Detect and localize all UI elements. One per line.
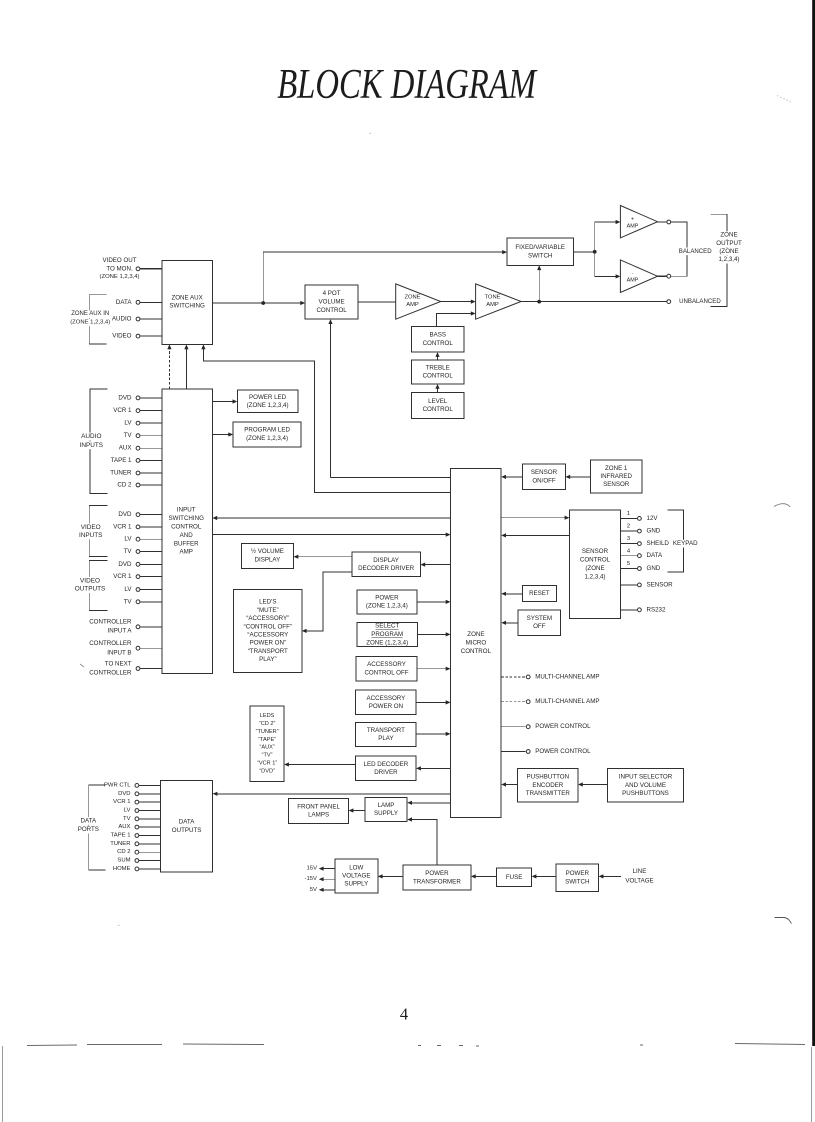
wire: zone micro -> data outputs (215, 793, 451, 795)
junction: node aux-out (261, 301, 265, 305)
svg-text:TRANSMITTER: TRANSMITTER (526, 790, 571, 797)
label: ZONE OUTPUT l1 (720, 231, 738, 239)
terminal: data port DVD (135, 792, 139, 796)
svg-text:“TV”: “TV” (262, 753, 273, 759)
svg-text:VOLUME: VOLUME (319, 299, 345, 306)
svg-text:INPUTS: INPUTS (79, 532, 102, 539)
wire: zone micro -> led decoder driver (418, 767, 450, 769)
label: ZONE AUX IN line 1 (71, 311, 109, 318)
wire: system off -> zone micro (504, 622, 518, 624)
terminal: data port SUM (135, 859, 139, 863)
block: SELECT PROGRAM ZONE (357, 622, 418, 646)
arrowhead: into leds list box (284, 762, 289, 766)
wire: data port CD 2 stub (139, 851, 160, 853)
svg-text:4: 4 (400, 1005, 408, 1024)
svg-text:(ZONE 1,2,3,4): (ZONE 1,2,3,4) (100, 274, 140, 280)
svg-text:DISPLAY: DISPLAY (255, 556, 281, 563)
svg-text:“TUNER”: “TUNER” (256, 729, 279, 735)
svg-text:“TAPE”: “TAPE” (258, 737, 276, 743)
wire: zone micro -> power control 1 (501, 726, 526, 728)
svg-text:RESET: RESET (529, 590, 550, 597)
terminal: unbalanced output (667, 300, 671, 304)
wire: keypad pin 1 12V (621, 517, 638, 519)
scan artifact: bottom dashed edge line (27, 1044, 805, 1047)
wire: video in TV stub (140, 551, 162, 553)
svg-text:BUFFER: BUFFER (174, 540, 199, 547)
svg-text:VIDEO: VIDEO (81, 524, 101, 531)
svg-text:INPUT A: INPUT A (108, 628, 133, 635)
svg-text:AND VOLUME: AND VOLUME (625, 782, 666, 789)
arrowhead: into zone aux switching c (201, 344, 205, 349)
svg-text:DATA: DATA (81, 817, 97, 824)
svg-text:POWER LED: POWER LED (249, 394, 287, 401)
wire: rs232 terminal wire (621, 609, 638, 611)
terminal: audio input TV (136, 434, 140, 438)
svg-text:AUDIO: AUDIO (112, 316, 132, 323)
terminal: VIDEO OUT TO MON (136, 267, 140, 271)
wire: tone-out branch up to fixed/variable switch (538, 268, 540, 302)
wire: line voltage -> power switch (601, 875, 621, 877)
terminal: audio input TUNER (136, 471, 140, 475)
wire: data port LV stub (139, 810, 160, 812)
terminal: ZONE AUX IN DATA (136, 300, 140, 304)
arrowhead: 5V out (319, 888, 324, 892)
op-amp: ZONE AMP (396, 284, 441, 319)
block: 4 POT VOLUME CONTROL (305, 285, 358, 319)
svg-text:4 POT: 4 POT (323, 290, 341, 297)
wire: tone amp -> unbalanced output (521, 301, 667, 303)
svg-text:TAPE 1: TAPE 1 (111, 833, 131, 839)
wire: sensor terminal wire (621, 584, 638, 586)
svg-text:LINE: LINE (633, 868, 647, 875)
arrowhead: into fixed/variable switch (502, 250, 507, 254)
arrowhead: into led decoder driver (416, 766, 421, 770)
wire: video in VCR 1 stub (140, 526, 162, 528)
svg-text:PROGRAM: PROGRAM (371, 631, 403, 638)
wire: bass control -> tone amp (436, 314, 473, 327)
svg-text:TAPE 1: TAPE 1 (111, 457, 132, 464)
svg-text:LEDS: LEDS (260, 713, 275, 719)
terminal: data port TUNER (135, 842, 139, 846)
wire: treble control -> bass control (437, 354, 439, 360)
svg-text:SELECT: SELECT (375, 623, 399, 630)
svg-text:VIDEO: VIDEO (112, 333, 131, 340)
svg-text:CONTROL: CONTROL (461, 648, 492, 655)
label: BALANCED (678, 248, 711, 256)
wire: video out TV stub (140, 601, 162, 603)
arrowhead: into zone micro f (446, 732, 451, 736)
block: SENSOR CONTROL (ZONE 1,2,3,4) (569, 510, 620, 618)
svg-text:1,2,3,4): 1,2,3,4) (719, 256, 740, 263)
wire: zone aux in VIDEO -> zone aux switching (140, 335, 162, 337)
terminal: audio input VCR 1 (136, 409, 140, 413)
label: VIDEO OUTPUTS line 2 (75, 585, 106, 593)
arrowhead: into power led (233, 399, 238, 403)
block: LOW VOLTAGE SUPPLY (335, 859, 378, 893)
block: PROGRAM LED (233, 422, 301, 447)
svg-text:DATA: DATA (179, 819, 195, 826)
svg-text:“CD 2”: “CD 2” (259, 721, 276, 727)
wire: zone micro -> display decoder driver (423, 564, 451, 566)
svg-text:BALANCED: BALANCED (679, 248, 712, 255)
svg-text:VCR 1: VCR 1 (113, 799, 130, 805)
svg-text:LOW: LOW (349, 864, 363, 871)
svg-text:“ACCESSORY”: “ACCESSORY” (246, 615, 289, 622)
svg-text:CONTROL: CONTROL (423, 373, 454, 380)
wire: data port HOME stub (139, 868, 160, 870)
svg-text:CD 2: CD 2 (117, 482, 132, 489)
svg-text:SENSOR: SENSOR (647, 581, 674, 588)
svg-text:DVD: DVD (118, 791, 130, 797)
wire: zone micro -> multi-channel amp 2 (501, 701, 526, 703)
svg-text:MICRO: MICRO (466, 639, 487, 646)
wire: bracket AUDIO INPUTS (90, 389, 108, 494)
terminal: keypad/12V (638, 517, 642, 521)
arrowhead: into data outputs (213, 792, 218, 796)
block: 1/2 VOLUME DISPLAY (241, 543, 293, 568)
arrowhead: into pushbutton encoder (578, 782, 583, 786)
terminal: data port PWR CTL (135, 784, 139, 788)
block: BASS CONTROL (412, 326, 464, 352)
wire: video out LV stub (140, 589, 162, 591)
block: FRONT PANEL LAMPS (289, 798, 349, 823)
arrowhead: into lamp supply a (407, 801, 412, 805)
op-amp: - AMP (balanced) (620, 260, 657, 293)
label: AUDIO INPUTS line 2 (79, 441, 104, 449)
arrowhead: into zone micro c (446, 632, 451, 636)
svg-text:UNBALANCED: UNBALANCED (679, 298, 721, 305)
svg-text:(ZONE: (ZONE (719, 248, 738, 255)
svg-text:-15V: -15V (305, 876, 318, 882)
terminal: video output TV (136, 600, 140, 604)
terminal: audio input AUX (136, 446, 140, 450)
terminal: CONTROLLER INPUT B (136, 646, 140, 650)
wire: data port PWR CTL stub (139, 784, 160, 786)
block: SENSOR ON/OFF (523, 464, 566, 489)
junction: node tone-out (537, 300, 541, 304)
svg-text:SWITCH: SWITCH (528, 252, 552, 259)
label: ZONE OUTPUT l3 (719, 248, 739, 256)
wire: transport play -> zone micro (416, 733, 448, 735)
svg-text:DRIVER: DRIVER (374, 769, 398, 776)
wire: audio in DVD stub (140, 397, 162, 399)
wire: data port TUNER stub (139, 843, 160, 845)
svg-text:“ACCESSORY: “ACCESSORY (247, 632, 288, 639)
svg-text:½ VOLUME: ½ VOLUME (251, 548, 284, 555)
block: FUSE (497, 868, 532, 887)
terminal: keypad/DATA (638, 554, 642, 558)
svg-text:INFRARED: INFRARED (600, 473, 632, 480)
arrowhead: into zone micro k (501, 782, 506, 786)
wire: keypad bracket (667, 510, 683, 572)
wire: pushbutton encoder -> zone micro (504, 784, 518, 786)
wire: bracket VIDEO INPUTS (89, 506, 107, 557)
svg-text:VCR 1: VCR 1 (113, 523, 132, 530)
svg-text:PLAY: PLAY (378, 735, 393, 742)
block: TRANSPORT PLAY (356, 722, 416, 746)
block: POWER SWITCH (556, 864, 599, 891)
svg-text:DATA: DATA (647, 552, 663, 559)
wire: zone amp -> tone amp (441, 301, 474, 303)
wire: amp-split vertical (594, 222, 596, 276)
arrowhead: into fuse (532, 874, 537, 878)
block: ACCESSORY POWER ON (356, 690, 416, 714)
label: VIDEO INPUTS line 1 (81, 523, 102, 531)
svg-text:VOLTAGE: VOLTAGE (625, 877, 653, 884)
svg-text:+: + (631, 217, 634, 223)
svg-text:KEYPAD: KEYPAD (673, 540, 698, 547)
svg-text:SHEILD: SHEILD (647, 540, 670, 547)
svg-text:TONE: TONE (485, 295, 501, 301)
wire: fuse -> power transformer (473, 875, 497, 877)
wire: display feedback horizontal to zone micro (331, 477, 451, 479)
svg-text:AMP: AMP (486, 302, 499, 308)
svg-text:CONTROLLER: CONTROLLER (89, 640, 132, 647)
wire: low voltage -15V out (321, 878, 335, 880)
wire: zone micro -> power control 2 (501, 751, 526, 753)
label: VIDEO INPUTS line 2 (78, 531, 103, 539)
terminal: audio input DVD (136, 396, 140, 400)
wire: controller input B stub (140, 647, 162, 649)
svg-text:2: 2 (627, 524, 630, 530)
block: PUSHBUTTON ENCODER TRANSMITTER (518, 769, 578, 802)
arrowhead: into program led (228, 432, 233, 436)
svg-text:5V: 5V (310, 887, 317, 893)
block: LEDS SOURCE LIST (250, 706, 284, 782)
arrowhead: into bass control (435, 352, 439, 357)
terminal: video input LV (136, 537, 140, 541)
terminal: data port CD 2 (135, 850, 139, 854)
terminal: keypad/SENSOR (638, 583, 642, 587)
svg-text:POWER CONTROL: POWER CONTROL (535, 748, 591, 755)
block: ZONE 1 INFRARED SENSOR (590, 460, 642, 493)
svg-text:TUNER: TUNER (110, 841, 130, 847)
scan artifact: right edge black bar (812, 0, 815, 1046)
svg-text:TRANSPORT: TRANSPORT (367, 727, 405, 734)
terminal: audio input LV (136, 421, 140, 425)
wire: zone micro -> zone aux switching (c) (203, 347, 450, 493)
wire: input switching -> program led (212, 434, 230, 436)
svg-text:“DVD”: “DVD” (259, 768, 275, 774)
wire: accessory power on -> zone micro (416, 701, 448, 703)
terminal: data port TAPE 1 (135, 834, 139, 838)
arrowhead: into half volume display (294, 555, 299, 559)
block: ACCESSORY CONTROL OFF (356, 657, 417, 681)
svg-text:LEVEL: LEVEL (428, 398, 448, 405)
svg-text:·: · (632, 271, 634, 277)
arrowhead: into zone micro i (501, 592, 506, 596)
wire: + amp -> balanced terminal (658, 221, 667, 223)
arrowhead: into zone micro d (446, 667, 451, 671)
wire: video out VCR 1 stub (140, 576, 162, 578)
svg-text:CONTROL: CONTROL (171, 524, 202, 531)
svg-text:LED'S: LED'S (259, 599, 276, 606)
wire: accessory control off -> zone micro (417, 668, 448, 670)
svg-text:SENSOR: SENSOR (531, 469, 558, 476)
terminal: data port TV (135, 817, 139, 821)
svg-text:MULTI-CHANNEL AMP: MULTI-CHANNEL AMP (535, 698, 599, 705)
svg-text:BLOCK DIAGRAM: BLOCK DIAGRAM (277, 62, 537, 108)
svg-text:VOLTAGE: VOLTAGE (342, 873, 370, 880)
svg-text:AUX: AUX (119, 445, 132, 452)
arrowhead: into input switching (212, 516, 217, 520)
wire: data port AUX stub (139, 826, 160, 828)
svg-text:ZONE: ZONE (720, 232, 737, 239)
svg-text:SYSTEM: SYSTEM (527, 615, 552, 622)
wire: bracket VIDEO OUTPUTS (89, 561, 107, 611)
wire: audio in TAPE 1 stub (140, 459, 162, 461)
svg-text:AMP: AMP (627, 223, 639, 229)
block: INPUT SWITCHING CONTROL AND BUFFER AMP (162, 389, 213, 674)
svg-text:VIDEO: VIDEO (80, 578, 100, 585)
terminal: keypad/GND 2 (638, 529, 642, 533)
wire: display decoder driver -> leds box (304, 572, 352, 631)
junction: node amp-split (593, 250, 597, 254)
svg-text:LAMPS: LAMPS (308, 812, 329, 819)
svg-text:PLAY”: PLAY” (259, 656, 276, 663)
wire: keypad pin 5 GND (621, 568, 638, 570)
wire: reset -> zone micro (504, 593, 523, 595)
arrowhead: into zone aux switching a (167, 344, 171, 349)
label: VIDEO OUTPUTS line 1 (80, 577, 101, 585)
svg-text:CD 2: CD 2 (117, 849, 130, 855)
wire: data port TAPE 1 stub (139, 835, 160, 837)
svg-text:TRANSFORMER: TRANSFORMER (413, 878, 461, 885)
terminal: video input TV (136, 550, 140, 554)
svg-text:SUPPLY: SUPPLY (374, 810, 398, 817)
svg-text:TUNER: TUNER (110, 470, 132, 477)
svg-text:“VCR 1”: “VCR 1” (257, 761, 277, 767)
wire: data port VCR 1 stub (139, 801, 160, 803)
svg-text:LV: LV (124, 536, 132, 543)
wire: data port DVD stub (139, 793, 160, 795)
terminal: audio input TAPE 1 (136, 459, 140, 463)
arrowhead: into zone micro j (501, 621, 506, 625)
label: KEYPAD (672, 540, 698, 548)
wire: video in LV stub (140, 538, 162, 540)
svg-text:“MUTE”: “MUTE” (257, 607, 279, 614)
svg-text:POWER: POWER (375, 594, 399, 601)
svg-text:AUX: AUX (118, 824, 130, 830)
svg-text:LV: LV (124, 420, 132, 427)
svg-text:ACCESSORY: ACCESSORY (367, 695, 406, 702)
svg-text:OUTPUTS: OUTPUTS (75, 586, 106, 593)
block: LED DECODER DRIVER (356, 756, 416, 781)
block: DISPLAY DECODER DRIVER (352, 552, 421, 577)
wire: audio in AUX stub (140, 447, 162, 449)
wire: controller input A stub (140, 626, 162, 628)
svg-text:FIXED/VARIABLE: FIXED/VARIABLE (515, 244, 565, 251)
block: POWER TRANSFORMER (403, 865, 471, 890)
terminal: TO NEXT CONTROLLER (136, 667, 140, 671)
svg-text:CONTROL: CONTROL (580, 557, 611, 564)
label: ZONE AUX IN line 2 (70, 319, 111, 326)
svg-text:12V: 12V (647, 515, 659, 522)
svg-text:FRONT PANEL: FRONT PANEL (297, 803, 340, 810)
wire: zone aux in AUDIO -> zone aux switching (140, 318, 162, 320)
wire: zone micro -> multi-channel amp 1 (501, 676, 526, 678)
wire: zone micro -> sensor control (501, 517, 567, 519)
terminal: video input DVD (136, 513, 140, 517)
terminal: balanced - output (667, 274, 671, 278)
arrowhead: into sensor on/off (565, 475, 570, 479)
svg-text:PORTS: PORTS (78, 826, 99, 833)
svg-text:TO MON.: TO MON. (106, 265, 133, 272)
block: POWER LED (237, 390, 297, 413)
arrowhead: into 4 pot volume control (300, 301, 305, 305)
svg-text:POWER: POWER (425, 870, 449, 877)
svg-text:ZONE (1,2,3,4): ZONE (1,2,3,4) (366, 639, 408, 646)
wire: balanced bracket (671, 222, 687, 276)
arrowhead: into fixed/variable switch bottom (537, 265, 541, 270)
scan artifact: bottom page-edge frame (3, 1046, 812, 1122)
terminal: video output LV (136, 588, 140, 592)
wire: audio in TUNER stub (140, 472, 162, 474)
terminal: CONTROLLER INPUT A (136, 625, 140, 629)
terminal: video input VCR 1 (136, 525, 140, 529)
svg-text:TO NEXT: TO NEXT (105, 660, 132, 667)
wire: keypad pin 2 GND (621, 530, 638, 532)
svg-text:HOME: HOME (113, 866, 131, 872)
svg-text:VIDEO OUT: VIDEO OUT (102, 257, 136, 264)
terminal: video output VCR 1 (136, 575, 140, 579)
block: ZONE AUX SWITCHING (162, 261, 213, 345)
svg-text:AMP: AMP (627, 278, 639, 284)
terminal: keypad/RS232 (638, 608, 642, 612)
svg-text:1,2,3,4): 1,2,3,4) (585, 574, 606, 581)
arrowhead: into tone amp lower pin (471, 311, 476, 315)
wire: input switching -> zone aux switching (b) (185, 347, 187, 390)
block: ZONE MICRO CONTROL (451, 468, 502, 817)
wire: input switching -> zone micro (212, 534, 448, 536)
svg-text:“AUX”: “AUX” (259, 745, 274, 751)
terminal: data port VCR 1 (135, 800, 139, 804)
wire: input selector -> pushbutton encoder (580, 784, 607, 786)
terminal: data port AUX (135, 825, 139, 829)
svg-text:ZONE: ZONE (467, 631, 484, 638)
wire: led decoder driver -> leds list box (286, 764, 355, 766)
wire: - amp -> balanced terminal (658, 275, 667, 277)
svg-text:BASS: BASS (429, 332, 446, 339)
svg-text:POWER ON: POWER ON (369, 703, 403, 710)
svg-text:SWITCH: SWITCH (565, 879, 589, 886)
svg-text:1: 1 (627, 511, 630, 517)
wire: video out DVD stub (140, 563, 162, 565)
wire: low voltage 15V out (321, 868, 335, 870)
wire: select program -> zone micro (418, 633, 449, 635)
svg-text:PUSHBUTTONS: PUSHBUTTONS (622, 790, 669, 797)
arrowhead: into display decoder driver (420, 563, 425, 567)
svg-text:CONTROL: CONTROL (423, 340, 454, 347)
svg-text:TV: TV (124, 548, 133, 555)
svg-text:VCR 1: VCR 1 (113, 407, 132, 414)
svg-text:DVD: DVD (118, 511, 132, 518)
arrowhead: into power transformer (471, 874, 476, 878)
wire: zone output bracket (711, 214, 727, 306)
svg-text:AMP: AMP (179, 549, 192, 556)
wire: input switching -> power led (212, 401, 235, 403)
svg-text:ZONE AUX: ZONE AUX (171, 294, 202, 301)
wire: sensor control -> zone micro (504, 534, 570, 536)
terminal: MULTI-CHANNEL AMP 1 (526, 675, 530, 679)
block: INPUT SELECTOR AND VOLUME PUSHBUTTONS (607, 769, 683, 802)
wire: level control -> treble control (437, 386, 439, 392)
svg-text:CONTROL OFF: CONTROL OFF (364, 669, 408, 676)
svg-text:(ZONE 1,2,3,4): (ZONE 1,2,3,4) (247, 402, 289, 409)
svg-text:FUSE: FUSE (506, 874, 523, 881)
arrowhead: into treble control (435, 384, 439, 389)
wire: amp-split -> + amp (595, 221, 618, 223)
